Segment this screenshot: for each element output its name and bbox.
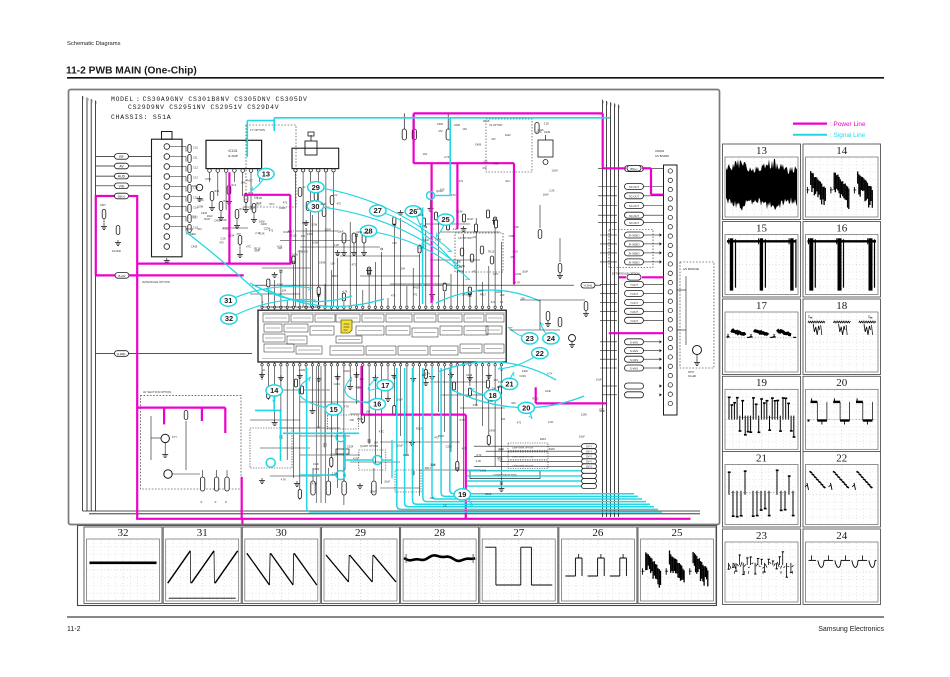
svg-text:4.7K: 4.7K bbox=[312, 482, 318, 486]
svg-text:104: 104 bbox=[473, 235, 478, 239]
svg-text:VID: VID bbox=[119, 184, 125, 188]
svg-text:24: 24 bbox=[547, 334, 556, 343]
svg-text:SC-OUT: SC-OUT bbox=[629, 194, 639, 198]
power line top 9V rail bbox=[413, 113, 602, 303]
right vertical bus wires bbox=[603, 100, 622, 517]
svg-text:R115: R115 bbox=[549, 447, 556, 451]
svg-text:C234: C234 bbox=[347, 444, 354, 448]
svg-text:29: 29 bbox=[355, 527, 367, 539]
waveform box 29 bbox=[322, 527, 400, 604]
test point 15 bbox=[299, 377, 342, 415]
waveform box 31 bbox=[163, 527, 241, 604]
svg-text:10uF: 10uF bbox=[423, 238, 429, 242]
svg-text:R417: R417 bbox=[438, 434, 445, 438]
svg-text:C409: C409 bbox=[357, 417, 364, 421]
svg-text:28: 28 bbox=[434, 527, 446, 539]
svg-text:472: 472 bbox=[491, 300, 496, 304]
svg-text:C234: C234 bbox=[228, 234, 235, 238]
svg-text:1/2W: 1/2W bbox=[459, 264, 466, 268]
svg-text:15: 15 bbox=[329, 405, 337, 414]
svg-text:4.7K: 4.7K bbox=[277, 245, 283, 249]
waveform box 24 bbox=[803, 529, 881, 605]
svg-text:H.DRL: H.DRL bbox=[117, 352, 126, 356]
A/V board connector CN601 bbox=[655, 149, 677, 415]
svg-text:4.7K: 4.7K bbox=[493, 272, 499, 276]
svg-text:C234: C234 bbox=[356, 230, 363, 234]
svg-text:4.7K: 4.7K bbox=[547, 371, 553, 375]
svg-text:472: 472 bbox=[283, 201, 288, 205]
svg-text:100: 100 bbox=[514, 225, 519, 229]
waveform box 19 bbox=[723, 376, 801, 452]
svg-text:KTC: KTC bbox=[537, 130, 542, 134]
svg-text:▏: ▏ bbox=[611, 103, 614, 106]
svg-text:29: 29 bbox=[312, 183, 320, 192]
svg-text:472: 472 bbox=[356, 386, 361, 390]
inner frame bottom bbox=[89, 513, 700, 515]
svg-text:R115: R115 bbox=[540, 437, 547, 441]
svg-text:472: 472 bbox=[459, 179, 464, 183]
svg-text:10uF: 10uF bbox=[505, 133, 511, 137]
svg-text:1/2W: 1/2W bbox=[311, 223, 318, 227]
waveform box 22 bbox=[803, 452, 881, 528]
svg-text:10uF: 10uF bbox=[522, 270, 528, 274]
svg-text:10uF: 10uF bbox=[338, 230, 344, 234]
svg-text:QUART OPTION: QUART OPTION bbox=[360, 445, 378, 448]
svg-text:11-2 PWB MAIN (One-Chip): 11-2 PWB MAIN (One-Chip) bbox=[66, 66, 197, 77]
svg-text:15: 15 bbox=[756, 222, 768, 234]
svg-text:10uF: 10uF bbox=[207, 214, 213, 218]
svg-text:13: 13 bbox=[756, 145, 768, 157]
svg-text:R115: R115 bbox=[493, 161, 500, 165]
svg-text:▏: ▏ bbox=[603, 101, 606, 104]
svg-text:10uF: 10uF bbox=[599, 409, 605, 413]
svg-text:10uF: 10uF bbox=[543, 192, 549, 196]
test point 21 bbox=[501, 372, 517, 390]
svg-text:472: 472 bbox=[269, 228, 274, 232]
svg-text:4.7K: 4.7K bbox=[462, 447, 468, 451]
svg-text:C234: C234 bbox=[456, 210, 463, 214]
svg-text:17: 17 bbox=[756, 300, 768, 312]
test point 31 bbox=[220, 287, 312, 307]
svg-text:L807: L807 bbox=[100, 203, 106, 207]
signal line long arcs bbox=[186, 232, 584, 408]
svg-text:S-VHS: S-VHS bbox=[630, 358, 638, 362]
svg-text:4.7K: 4.7K bbox=[344, 404, 350, 408]
svg-text:KTC: KTC bbox=[498, 380, 503, 384]
svg-text:31: 31 bbox=[224, 296, 232, 305]
svg-text:472: 472 bbox=[482, 166, 487, 170]
power line main B+ rail bbox=[136, 195, 690, 524]
svg-text:JK-VIDEO: JK-VIDEO bbox=[628, 262, 639, 265]
svg-text:4.7K: 4.7K bbox=[281, 478, 287, 482]
svg-text:4.7K: 4.7K bbox=[444, 155, 450, 159]
svg-text:C409: C409 bbox=[544, 130, 551, 134]
svg-text:TU01: TU01 bbox=[186, 227, 194, 231]
svg-text:KTC: KTC bbox=[460, 418, 465, 422]
svg-text:4.7K: 4.7K bbox=[476, 453, 482, 457]
svg-text:472: 472 bbox=[491, 137, 496, 141]
svg-text:27: 27 bbox=[374, 206, 382, 215]
svg-text:R115: R115 bbox=[532, 397, 539, 401]
svg-text:SC-OUT: SC-OUT bbox=[629, 221, 639, 225]
svg-text:MODEL : CS30A9GNV CS301B8NV C: MODEL : CS30A9GNV CS301B8NV CS305DNV CS3… bbox=[111, 96, 308, 103]
svg-text:: Power Line: : Power Line bbox=[830, 121, 866, 128]
svg-text:▏: ▏ bbox=[83, 96, 86, 100]
svg-text:10uF: 10uF bbox=[545, 389, 551, 393]
svg-text:IF AMP: IF AMP bbox=[228, 154, 238, 158]
svg-text:19: 19 bbox=[458, 490, 466, 499]
waveform box 25 bbox=[638, 527, 716, 604]
svg-text:472: 472 bbox=[434, 435, 439, 439]
svg-text:JUMP WIRE OPTION: JUMP WIRE OPTION bbox=[512, 457, 534, 459]
waveform box 30 bbox=[242, 527, 320, 604]
svg-text:2.2K: 2.2K bbox=[334, 243, 340, 247]
svg-text:10uF: 10uF bbox=[596, 378, 602, 382]
power line right mid branch bbox=[536, 387, 607, 403]
svg-text:10uF: 10uF bbox=[497, 385, 503, 389]
svg-text:104: 104 bbox=[243, 205, 248, 209]
power line tuner loop bbox=[138, 172, 290, 264]
svg-text:1/2W: 1/2W bbox=[581, 412, 588, 416]
svg-text:104: 104 bbox=[330, 262, 335, 266]
svg-text:104: 104 bbox=[423, 152, 428, 156]
svg-text:26: 26 bbox=[592, 527, 604, 539]
svg-text:KTC: KTC bbox=[269, 202, 274, 206]
svg-text:R417: R417 bbox=[480, 292, 487, 296]
test point 28 bbox=[360, 225, 470, 280]
waveform box 17 bbox=[723, 299, 801, 375]
svg-text:C11: C11 bbox=[193, 156, 198, 160]
svg-text:472: 472 bbox=[352, 263, 357, 267]
svg-text:2.2K: 2.2K bbox=[549, 188, 555, 192]
svg-text:JK-VIDEO: JK-VIDEO bbox=[628, 244, 639, 247]
svg-text:S-VHS: S-VHS bbox=[630, 340, 638, 344]
svg-text:100: 100 bbox=[483, 160, 488, 164]
svg-text:R11: R11 bbox=[223, 199, 228, 203]
svg-text:RF: RF bbox=[119, 155, 124, 159]
svg-text:B+9V: B+9V bbox=[119, 274, 126, 278]
svg-text:1/2W: 1/2W bbox=[369, 489, 376, 493]
svg-text:472: 472 bbox=[438, 129, 443, 133]
test point 27 bbox=[370, 205, 458, 268]
svg-text:Y-OUT: Y-OUT bbox=[630, 301, 638, 305]
svg-text:4.7K: 4.7K bbox=[353, 457, 359, 461]
svg-text:30: 30 bbox=[311, 202, 319, 211]
svg-text:18: 18 bbox=[488, 391, 496, 400]
mid discrete cluster bbox=[402, 113, 553, 272]
svg-text:TV OPTION: TV OPTION bbox=[250, 128, 265, 132]
tuner side components bbox=[164, 145, 212, 264]
test point 30 bbox=[307, 201, 462, 268]
svg-text:IC101: IC101 bbox=[228, 149, 237, 153]
svg-text:104: 104 bbox=[197, 227, 202, 231]
svg-text:2.2K: 2.2K bbox=[544, 122, 550, 126]
svg-text:FILTER: FILTER bbox=[112, 249, 121, 253]
svg-text:1/2W: 1/2W bbox=[522, 369, 529, 373]
svg-text:SV-Y: SV-Y bbox=[586, 445, 592, 449]
svg-text:: Signal Line: : Signal Line bbox=[830, 132, 866, 139]
svg-text:SC-OUT: SC-OUT bbox=[629, 214, 639, 218]
svg-text:4.7K: 4.7K bbox=[342, 289, 348, 293]
svg-text:14: 14 bbox=[836, 145, 848, 157]
bottom-right signal fan bbox=[474, 444, 597, 469]
svg-text:17: 17 bbox=[381, 381, 389, 390]
svg-text:104: 104 bbox=[241, 181, 246, 185]
svg-text:2.2K: 2.2K bbox=[302, 221, 308, 225]
right mid cluster bbox=[510, 205, 589, 347]
svg-text:JK-VIDEO: JK-VIDEO bbox=[628, 235, 639, 238]
waveform box 32 bbox=[84, 527, 162, 604]
svg-text:32: 32 bbox=[118, 527, 129, 539]
TV option dashed box bbox=[246, 125, 296, 207]
svg-text:S-VHS: S-VHS bbox=[630, 349, 638, 353]
power line to A/V connector bbox=[603, 166, 664, 334]
svg-text:C409: C409 bbox=[299, 368, 306, 372]
waveform box 13 bbox=[723, 144, 801, 220]
svg-text:R417: R417 bbox=[247, 179, 254, 183]
yellow note icon bbox=[341, 320, 352, 333]
svg-text:R417: R417 bbox=[413, 286, 420, 290]
svg-text:14: 14 bbox=[270, 386, 279, 395]
svg-text:472: 472 bbox=[472, 269, 477, 273]
svg-text:23: 23 bbox=[526, 334, 534, 343]
test point 25 bbox=[436, 214, 454, 237]
svg-text:100: 100 bbox=[254, 195, 259, 199]
svg-text:Y-OUT: Y-OUT bbox=[630, 283, 638, 287]
svg-text:472: 472 bbox=[236, 232, 241, 236]
svg-text:R10: R10 bbox=[214, 189, 219, 193]
svg-text:CN601: CN601 bbox=[655, 149, 665, 153]
svg-text:AV SECTION OPTION: AV SECTION OPTION bbox=[143, 390, 171, 394]
test point 19 bbox=[454, 489, 473, 507]
power line left B+ branch bbox=[96, 193, 244, 278]
svg-text:18: 18 bbox=[836, 300, 848, 312]
waveform box 27 bbox=[480, 527, 558, 604]
svg-text:2.2K: 2.2K bbox=[453, 227, 459, 231]
input connectors RF/AV bbox=[96, 154, 152, 189]
waveform box 21 bbox=[723, 452, 801, 528]
tuner connector block TU01 bbox=[152, 132, 187, 257]
test point 22 bbox=[498, 348, 548, 369]
svg-text:30: 30 bbox=[276, 527, 288, 539]
test point 20 bbox=[518, 402, 534, 419]
test point 13 bbox=[251, 168, 274, 191]
svg-text:▏: ▏ bbox=[607, 102, 610, 105]
test point 18 bbox=[470, 388, 501, 401]
svg-text:1/2W: 1/2W bbox=[259, 220, 266, 224]
waveform box 15 bbox=[723, 222, 801, 298]
svg-text:C409: C409 bbox=[475, 142, 482, 146]
svg-text:CS29D9NV CS2951NV CS2951V: CS29D9NV CS2951NV CS2951V CS29D4V bbox=[128, 104, 279, 111]
svg-text:10uF: 10uF bbox=[320, 202, 326, 206]
svg-text:472: 472 bbox=[192, 184, 197, 188]
svg-text:100: 100 bbox=[359, 377, 364, 381]
IC01 bottom pins and wires bbox=[250, 362, 505, 505]
svg-text:21: 21 bbox=[505, 380, 513, 389]
svg-text:24: 24 bbox=[836, 530, 848, 542]
svg-text:KILLER: KILLER bbox=[688, 375, 697, 378]
one-chip IC IC01 bbox=[258, 305, 506, 362]
svg-text:C409: C409 bbox=[480, 468, 487, 472]
svg-text:1/2W: 1/2W bbox=[435, 238, 442, 242]
SIF components bbox=[296, 186, 367, 255]
svg-text:R115: R115 bbox=[483, 119, 490, 123]
svg-text:R115: R115 bbox=[485, 492, 492, 496]
svg-text:C409: C409 bbox=[319, 261, 326, 265]
waveform box 23 bbox=[723, 529, 801, 605]
SAW filter / SIF box bbox=[292, 132, 339, 307]
legend power line bbox=[793, 122, 827, 124]
svg-text:R417: R417 bbox=[467, 217, 474, 221]
svg-text:C10: C10 bbox=[193, 146, 198, 150]
svg-text:472: 472 bbox=[517, 421, 522, 425]
svg-text:A/V BOARD: A/V BOARD bbox=[655, 154, 669, 158]
svg-text:SC-OUT: SC-OUT bbox=[629, 185, 639, 189]
svg-text:19: 19 bbox=[756, 377, 768, 389]
signal line top video bus bbox=[247, 118, 610, 304]
svg-text:▏: ▏ bbox=[91, 99, 94, 103]
svg-text:10uF: 10uF bbox=[397, 444, 403, 448]
svg-text:472: 472 bbox=[413, 293, 418, 297]
svg-text:KT?: KT? bbox=[172, 435, 177, 439]
svg-text:C12: C12 bbox=[193, 166, 198, 170]
power line video B+ drop bbox=[362, 366, 466, 519]
svg-text:SV-Y: SV-Y bbox=[586, 460, 592, 464]
test point 32 bbox=[221, 299, 316, 324]
svg-text:104: 104 bbox=[374, 441, 379, 445]
svg-text:R: R bbox=[215, 501, 217, 504]
svg-text:1/2W: 1/2W bbox=[197, 205, 204, 209]
svg-text:10uF: 10uF bbox=[498, 447, 504, 451]
svg-text:▏: ▏ bbox=[87, 98, 90, 102]
svg-text:472: 472 bbox=[510, 255, 515, 259]
svg-text:2.2K: 2.2K bbox=[513, 250, 519, 254]
footer rule bbox=[67, 616, 884, 618]
svg-text:X2 OPTION: X2 OPTION bbox=[489, 124, 503, 127]
svg-text:104: 104 bbox=[401, 267, 406, 271]
svg-text:SV-Y: SV-Y bbox=[586, 450, 592, 454]
svg-text:4.7K: 4.7K bbox=[515, 281, 521, 285]
gray ribbon wires bbox=[317, 366, 326, 503]
svg-text:104: 104 bbox=[493, 378, 498, 382]
misc reference labels bbox=[191, 119, 606, 507]
A/V module dashed box bbox=[677, 262, 714, 378]
main schematic frame bbox=[69, 90, 720, 525]
svg-text:100: 100 bbox=[350, 418, 355, 422]
svg-text:2.2K: 2.2K bbox=[332, 472, 338, 476]
svg-text:CHASSIS: S51A: CHASSIS: S51A bbox=[111, 114, 171, 121]
svg-text:AV/MODULE OPTION: AV/MODULE OPTION bbox=[142, 280, 170, 284]
svg-text:KTC: KTC bbox=[246, 245, 251, 249]
svg-text:A/V MODULE: A/V MODULE bbox=[683, 267, 699, 271]
waveform box 28 bbox=[401, 527, 479, 604]
svg-text:100: 100 bbox=[392, 241, 397, 245]
IF components cluster bbox=[209, 183, 262, 257]
svg-text:C409: C409 bbox=[509, 234, 516, 238]
svg-text:C409: C409 bbox=[462, 292, 469, 296]
svg-text:100: 100 bbox=[511, 401, 516, 405]
svg-text:25: 25 bbox=[672, 527, 684, 539]
waveform box 16 bbox=[803, 222, 881, 298]
svg-text:R115: R115 bbox=[222, 227, 229, 231]
svg-text:C409: C409 bbox=[343, 369, 350, 373]
test point 29 bbox=[308, 182, 452, 252]
svg-text:C234: C234 bbox=[496, 290, 503, 294]
svg-text:CD OPTION: CD OPTION bbox=[458, 236, 473, 240]
left signal bus wires bbox=[83, 96, 701, 511]
svg-text:100: 100 bbox=[366, 409, 371, 413]
waveform box 20 bbox=[803, 376, 881, 452]
jumper option boxes bbox=[470, 443, 548, 479]
signal line bottom bundle bbox=[307, 368, 662, 512]
svg-text:C234: C234 bbox=[520, 374, 527, 378]
svg-text:25: 25 bbox=[441, 215, 449, 224]
svg-text:C234: C234 bbox=[446, 444, 453, 448]
svg-text:1/2W: 1/2W bbox=[552, 169, 559, 173]
svg-text:1/2W: 1/2W bbox=[477, 289, 484, 293]
svg-text:JUMP WIRE OPTION: JUMP WIRE OPTION bbox=[512, 466, 534, 468]
svg-text:C409: C409 bbox=[437, 122, 444, 126]
svg-text:C409: C409 bbox=[489, 429, 496, 433]
svg-text:C234: C234 bbox=[307, 232, 314, 236]
svg-text:100: 100 bbox=[457, 259, 462, 263]
IC01 top pins and wires bbox=[250, 210, 503, 310]
svg-text:C409: C409 bbox=[466, 373, 473, 377]
svg-text:4.7K: 4.7K bbox=[425, 372, 431, 376]
svg-text:10uF: 10uF bbox=[277, 283, 283, 287]
svg-text:31: 31 bbox=[197, 527, 208, 539]
svg-text:KTC: KTC bbox=[256, 202, 261, 206]
svg-text:104: 104 bbox=[501, 417, 506, 421]
svg-text:B5(+): B5(+) bbox=[118, 195, 125, 199]
svg-text:22: 22 bbox=[536, 349, 544, 358]
test point 14 bbox=[266, 385, 282, 404]
svg-text:2.2K: 2.2K bbox=[259, 231, 265, 235]
svg-text:10uF: 10uF bbox=[384, 479, 390, 483]
svg-text:100: 100 bbox=[429, 496, 434, 500]
svg-text:472: 472 bbox=[337, 202, 342, 206]
svg-text:R115: R115 bbox=[290, 234, 297, 238]
svg-text:472: 472 bbox=[316, 425, 321, 429]
svg-text:100: 100 bbox=[301, 234, 306, 238]
svg-text:R115: R115 bbox=[284, 230, 291, 234]
svg-text:Samsung Electronics: Samsung Electronics bbox=[818, 626, 884, 633]
svg-text:32: 32 bbox=[225, 314, 233, 323]
svg-text:Y-OUT: Y-OUT bbox=[630, 319, 638, 323]
svg-text:2.2K: 2.2K bbox=[430, 463, 436, 467]
svg-text:C234: C234 bbox=[334, 382, 341, 386]
svg-text:▏: ▏ bbox=[619, 106, 622, 109]
signal line right fan bbox=[467, 468, 597, 488]
svg-text:C234: C234 bbox=[457, 269, 464, 273]
waveform box 26 bbox=[559, 527, 637, 604]
svg-text:C234: C234 bbox=[417, 246, 424, 250]
svg-text:R: R bbox=[201, 501, 203, 504]
svg-text:23: 23 bbox=[756, 530, 768, 542]
power line AV rail bbox=[137, 408, 242, 519]
svg-text:C409: C409 bbox=[454, 123, 461, 127]
svg-text:1/2W: 1/2W bbox=[302, 250, 309, 254]
test point 26 bbox=[405, 206, 424, 247]
svg-text:C13: C13 bbox=[193, 176, 198, 180]
svg-text:R115: R115 bbox=[488, 250, 495, 254]
right edge net labels bbox=[598, 166, 664, 398]
svg-text:11-2: 11-2 bbox=[67, 626, 81, 633]
svg-text:20: 20 bbox=[522, 403, 530, 412]
svg-text:C409: C409 bbox=[403, 453, 410, 457]
svg-text:Y-OUT: Y-OUT bbox=[630, 292, 638, 296]
bottom waveform strip frame bbox=[78, 526, 717, 606]
